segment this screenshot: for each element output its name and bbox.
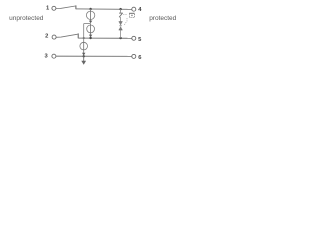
gas discharge tube G1 arrowhead xyxy=(89,21,92,24)
node junction row2 / right branch xyxy=(119,37,121,39)
indicator dashed link down xyxy=(124,18,127,26)
suppressor diode middle bar xyxy=(119,25,122,27)
right branch mid stub xyxy=(120,17,122,22)
suppressor top bar xyxy=(119,21,123,23)
remote indicator dashed box xyxy=(129,13,134,17)
gas discharge tube G2 arrow shaft xyxy=(90,24,92,36)
terminal circle 5 xyxy=(132,36,136,40)
suppressor diode upper triangle xyxy=(119,22,122,26)
earth stub below row 3 xyxy=(83,56,85,61)
svg-text:unprotected: unprotected xyxy=(9,15,44,22)
switch blade row 2 xyxy=(56,34,78,37)
gas discharge tube G1 arrow shaft xyxy=(90,11,92,21)
switch blade row 1 xyxy=(56,6,76,9)
wire row 1 (tick to terminal 4) xyxy=(76,8,132,11)
switch fixed-contact tick row 2 xyxy=(77,33,79,38)
terminal circle 3 xyxy=(52,54,56,58)
earth arrowhead xyxy=(81,61,86,65)
gas discharge tube G3 arrowhead xyxy=(82,53,85,56)
mid-tap horizontal link xyxy=(84,23,91,25)
suppressor bottom bar xyxy=(119,29,123,31)
node junction row1 / GDT column xyxy=(89,8,91,10)
crossing dot row2 / mid-tap column xyxy=(83,37,85,39)
right branch lower stub xyxy=(120,30,122,38)
arrester column stub from row1 xyxy=(90,9,92,11)
indicator dashed link xyxy=(123,14,127,16)
gas discharge tube G2 arrowhead xyxy=(89,35,92,38)
terminal circle 6 xyxy=(132,54,136,58)
terminal circle 2 xyxy=(52,35,56,39)
svg-text:2: 2 xyxy=(45,33,48,39)
terminal circle 1 xyxy=(52,6,56,10)
disconnector blade xyxy=(119,13,123,17)
svg-text:protected: protected xyxy=(149,15,176,22)
gas discharge tube G1 circle xyxy=(86,11,94,19)
mid-tap vertical wire xyxy=(83,24,85,42)
junction row2 / GDT column xyxy=(89,37,91,39)
node junction row1 / right branch xyxy=(119,8,121,10)
gas discharge tube G2 circle xyxy=(87,25,95,33)
switch fixed-contact tick row 1 xyxy=(75,5,77,9)
wire row 2 (tick to terminal 5) xyxy=(78,37,132,39)
terminal circle 4 xyxy=(132,7,136,11)
background xyxy=(0,0,185,72)
remote indicator box top edge xyxy=(129,12,134,14)
right branch stub from row1 xyxy=(120,9,122,13)
disconnector tick xyxy=(119,12,122,14)
junction row3 / earth column xyxy=(83,55,85,57)
wire row 3 (terminal 3 to terminal 6) xyxy=(56,55,132,57)
gas discharge tube G3 arrow shaft xyxy=(83,42,85,54)
remote indicator inner mark xyxy=(131,15,133,16)
gas discharge tube G3 circle xyxy=(80,42,88,50)
suppressor diode lower triangle xyxy=(119,26,122,30)
